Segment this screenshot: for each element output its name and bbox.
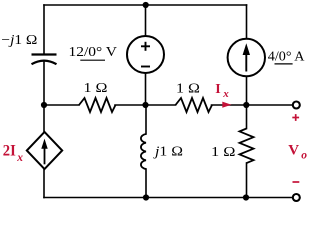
svg-text:4/0° A: 4/0° A (268, 50, 306, 65)
svg-text:I: I (215, 82, 220, 97)
svg-text:V: V (288, 142, 299, 158)
svg-text:2I: 2I (3, 143, 16, 160)
svg-text:x: x (16, 152, 23, 164)
svg-text:1 Ω: 1 Ω (211, 145, 236, 160)
svg-text:1 Ω: 1 Ω (176, 81, 200, 96)
svg-text:−j1 Ω: −j1 Ω (1, 33, 37, 48)
svg-text:o: o (301, 150, 307, 162)
svg-text:j1 Ω: j1 Ω (153, 144, 183, 159)
svg-text:12/0° V: 12/0° V (69, 45, 118, 60)
svg-text:1 Ω: 1 Ω (84, 81, 108, 96)
svg-text:x: x (222, 88, 229, 100)
